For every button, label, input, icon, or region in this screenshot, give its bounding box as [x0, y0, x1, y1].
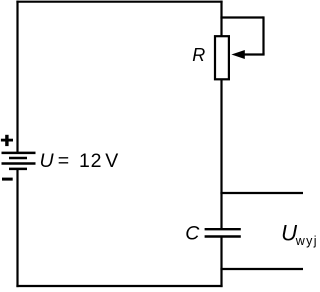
svg-text:U: U [40, 150, 55, 172]
capacitor C: bottom plate [205, 235, 241, 237]
wire: bottom horizontal [16, 285, 222, 287]
label: battery minus sign [2, 178, 13, 181]
battery U: plate short [9, 157, 27, 160]
svg-text:12: 12 [79, 150, 102, 172]
wire: right side bottom (capacitor to bottom corner) [220, 237, 222, 288]
wire: right side top (top corner to resistor) [220, 1, 222, 37]
label: battery plus sign [1, 135, 13, 146]
svg-text:=: = [58, 150, 69, 172]
potentiometer wiper: wire vertical down [262, 16, 264, 54]
label: U wyj (output voltage) [281, 221, 318, 248]
svg-text:U: U [281, 221, 297, 246]
svg-text:wyj: wyj [295, 234, 318, 248]
wire: output lead upper [220, 192, 303, 194]
resistor R: body [215, 36, 229, 79]
wire: left side lower (battery to bottom corner) [16, 169, 18, 287]
wire: left side upper (top corner to battery) [16, 1, 18, 153]
battery U: plate long [2, 162, 36, 165]
wire: output lead lower [220, 268, 303, 270]
wire: right side middle (resistor to capacitor) [220, 79, 222, 229]
battery U: plate short bottom (-) [9, 168, 27, 171]
svg-text:V: V [105, 150, 118, 172]
wire: top horizontal [16, 1, 222, 3]
label: U = 12 V [40, 150, 119, 172]
potentiometer wiper: wire horizontal toward arrow [244, 53, 265, 55]
capacitor C: top plate [205, 228, 241, 230]
potentiometer wiper: arrow head [231, 50, 244, 59]
svg-text:C: C [185, 223, 200, 245]
svg-text:R: R [192, 45, 205, 65]
potentiometer wiper: wire horizontal from node [220, 16, 263, 18]
battery U: plate long top (+) [2, 152, 36, 155]
